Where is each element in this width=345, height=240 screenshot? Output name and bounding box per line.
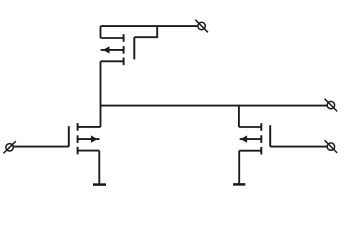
M2 bulk stub bbox=[240, 138, 262, 140]
M1 bulk stub bbox=[78, 138, 100, 140]
terminal port OUT (right middle, circle with slash) bbox=[325, 99, 338, 112]
M2 bulk arrow (points left) bbox=[241, 135, 248, 142]
wire: input terminal to M1 gate bbox=[13, 146, 69, 148]
M2 source stub bbox=[239, 150, 261, 152]
M1 gate bar bbox=[68, 126, 70, 146]
M1 source stub bbox=[78, 150, 100, 152]
transistor M1 (NMOS, bottom left) bbox=[69, 123, 101, 154]
terminal port VBIAS (right bottom, circle with slash) bbox=[325, 140, 338, 153]
M2 channel tick (drain) bbox=[260, 123, 262, 131]
M3 channel tick (drain) bbox=[123, 58, 125, 66]
M1 bulk arrow (points right) bbox=[91, 135, 98, 142]
transistor M3 (PMOS, top) bbox=[101, 34, 135, 65]
wire: M2 gate lead to right terminal bbox=[270, 146, 327, 148]
wire: M2 source down to ground bbox=[238, 151, 240, 185]
M2 channel tick (bulk) bbox=[260, 135, 262, 143]
M1 drain stub bbox=[78, 126, 101, 128]
M2 channel tick (source) bbox=[260, 147, 262, 155]
M3 bulk arrow (points left) bbox=[103, 46, 110, 53]
ground (right) bbox=[233, 183, 245, 186]
M2 gate bar bbox=[269, 125, 271, 146]
M3 bulk stub bbox=[101, 49, 124, 51]
M3 drain stub bbox=[101, 60, 124, 62]
M2 drain stub bbox=[239, 126, 261, 128]
wire: VDD rail (top horizontal) bbox=[101, 25, 198, 27]
wire: node A down to M2 drain bbox=[238, 106, 240, 127]
M3 channel tick (bulk) bbox=[123, 46, 125, 54]
M3 source stub bbox=[101, 37, 124, 39]
ground (left) bbox=[93, 183, 106, 186]
wire: M1 source down to ground bbox=[98, 151, 100, 185]
wire: M3 gate lead to VDD rail bbox=[134, 26, 157, 37]
wire: M3 source up to VDD rail bbox=[100, 26, 102, 38]
M3 channel tick (source) bbox=[123, 34, 125, 42]
wire: M3 drain trunk down to node A and M1 drain bbox=[100, 61, 102, 127]
transistor M2 (NMOS, bottom right) bbox=[239, 123, 270, 154]
terminal port IN (left, circle with slash) bbox=[3, 141, 15, 153]
terminal port VDD (top, circle with slash) bbox=[195, 20, 208, 33]
M1 channel tick (drain) bbox=[77, 123, 79, 131]
M3 gate bar bbox=[133, 37, 135, 59]
M1 channel tick (source) bbox=[77, 147, 79, 155]
M1 channel tick (bulk) bbox=[77, 135, 79, 143]
node A: output rail (middle horizontal) bbox=[101, 105, 328, 107]
